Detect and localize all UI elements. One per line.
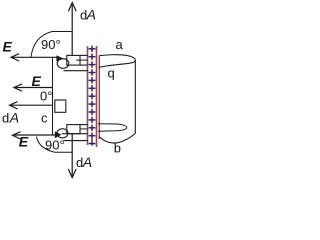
dA arrow top head (68, 3, 76, 12)
charged sheet left line (87, 46, 89, 145)
curved-side edge line (52, 57, 54, 135)
bottom plug upper short line (80, 128, 88, 130)
svg-text:b: b (114, 141, 121, 156)
svg-text:a: a (116, 37, 124, 52)
svg-text:90°: 90° (45, 138, 65, 153)
90 degree marker top (31, 32, 72, 58)
top plug bottom line to sheet (64, 70, 88, 72)
bottom plug right tube (98, 124, 127, 131)
Gaussian can left edge (98, 56, 100, 139)
bottom plug top line to sheet (80, 124, 88, 126)
dA arrow bottom shaft (71, 134, 73, 177)
svg-text:E: E (3, 39, 13, 55)
90 degree marker bottom (37, 137, 73, 153)
top plug box (67, 55, 80, 65)
plus charges column (89, 46, 96, 146)
svg-text:E: E (19, 134, 29, 150)
top plug left cap ellipse (57, 59, 69, 69)
svg-text:0°: 0° (40, 89, 52, 104)
Gaussian can top cap (99, 55, 135, 68)
bottom plug mid line to sheet (62, 133, 88, 135)
dA arrow bottom head (68, 169, 76, 178)
Gaussian can bottom front arc (99, 134, 135, 144)
E arrow bottom shaft (14, 134, 56, 136)
dA arrow middle head (10, 102, 18, 109)
bottom plug left cap ellipse (57, 129, 68, 138)
dA arrow top shaft (71, 4, 73, 56)
svg-text:q: q (108, 66, 115, 81)
charged sheet right line (96, 46, 98, 147)
dA arrow middle shaft (11, 104, 53, 106)
top plug upper short line (76, 59, 88, 61)
E arrow bottom head (13, 132, 21, 139)
svg-text:A: A (9, 109, 19, 125)
svg-text:c: c (41, 110, 48, 125)
top plug mid line to sheet (80, 64, 88, 66)
E arrow top head (11, 54, 19, 61)
svg-text:d: d (2, 110, 9, 125)
E arrow middle head (14, 84, 22, 91)
top plug top line to sheet (80, 54, 88, 56)
E arrow top shaft (12, 56, 57, 58)
bottom plug bottom line to sheet (64, 140, 88, 142)
svg-text:A: A (82, 154, 92, 170)
dA area element box (surface c) (55, 100, 66, 112)
Gaussian can right edge (134, 60, 136, 133)
E arrow middle shaft (15, 87, 53, 89)
svg-text:90°: 90° (41, 37, 61, 52)
svg-text:A: A (86, 7, 96, 23)
svg-text:E: E (32, 73, 42, 89)
bottom plug box (67, 125, 80, 134)
